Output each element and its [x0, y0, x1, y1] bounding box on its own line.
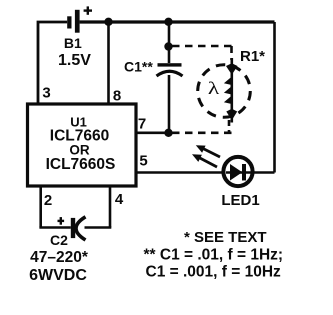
battery B1 — [67, 10, 79, 33]
wire LED cathode to right rail — [253, 171, 275, 174]
junction pin 8 tap on top rail — [104, 18, 112, 26]
wire pin 8 — [107, 22, 110, 104]
svg-text:LED1: LED1 — [221, 192, 259, 209]
photoresistor R1 lambda symbol — [208, 78, 219, 99]
svg-text:C1 = .001, f = 10Hz: C1 = .001, f = 10Hz — [146, 264, 282, 281]
svg-text:4: 4 — [115, 191, 124, 208]
svg-text:8: 8 — [113, 88, 121, 105]
wire pin 2 — [39, 187, 42, 228]
LED1 emission arrows — [192, 145, 220, 167]
svg-text:C1**: C1** — [124, 59, 153, 75]
svg-text:7: 7 — [138, 116, 146, 133]
svg-text:2: 2 — [44, 192, 52, 209]
svg-text:R1*: R1* — [240, 48, 265, 65]
wire C1 branch lower — [168, 75, 171, 133]
capacitor C1 — [157, 63, 183, 76]
svg-text:* SEE TEXT: * SEE TEXT — [184, 229, 267, 246]
IC U1 box — [28, 104, 137, 186]
photoresistor R1 dashed circle enclosure — [198, 65, 251, 118]
wire bottom right segment — [85, 226, 112, 229]
svg-text:** C1 = .01, f = 1Hz;: ** C1 = .01, f = 1Hz; — [144, 247, 284, 264]
svg-text:6WVDC: 6WVDC — [29, 267, 87, 284]
svg-text:5: 5 — [139, 153, 147, 170]
C2 plus polarity mark — [58, 217, 65, 225]
svg-text:ICL7660S: ICL7660S — [46, 156, 116, 173]
svg-text:λ: λ — [208, 78, 219, 99]
svg-text:1.5V: 1.5V — [58, 52, 91, 69]
wire pin 7 — [137, 132, 170, 135]
wire pin 5 to LED anode — [137, 171, 227, 174]
capacitor C2 — [71, 217, 86, 240]
wire pin 4 — [109, 187, 112, 228]
svg-text:3: 3 — [42, 85, 50, 102]
photoresistor R1 element — [224, 58, 238, 123]
svg-text:47–220*: 47–220* — [30, 249, 89, 266]
junction node pin7 / C1 bottom / dashed-box bottom-left — [164, 129, 172, 137]
wire bottom left segment — [39, 226, 70, 229]
wire top rail left segment (battery minus to top-left corner) — [38, 22, 67, 106]
dashed enclosure box for R1 — [172, 46, 232, 133]
wire C1 branch upper — [168, 22, 171, 63]
battery plus polarity mark — [84, 6, 92, 14]
junction C1 branch tap on top rail — [164, 18, 172, 26]
junction dashed-box top-left corner — [164, 42, 172, 50]
LED LED1 — [223, 157, 252, 186]
wire right rail — [273, 22, 276, 173]
svg-text:C2: C2 — [50, 232, 68, 248]
svg-text:B1: B1 — [64, 35, 82, 51]
wire top rail right segment (battery plus to top-right corner) — [80, 20, 275, 23]
